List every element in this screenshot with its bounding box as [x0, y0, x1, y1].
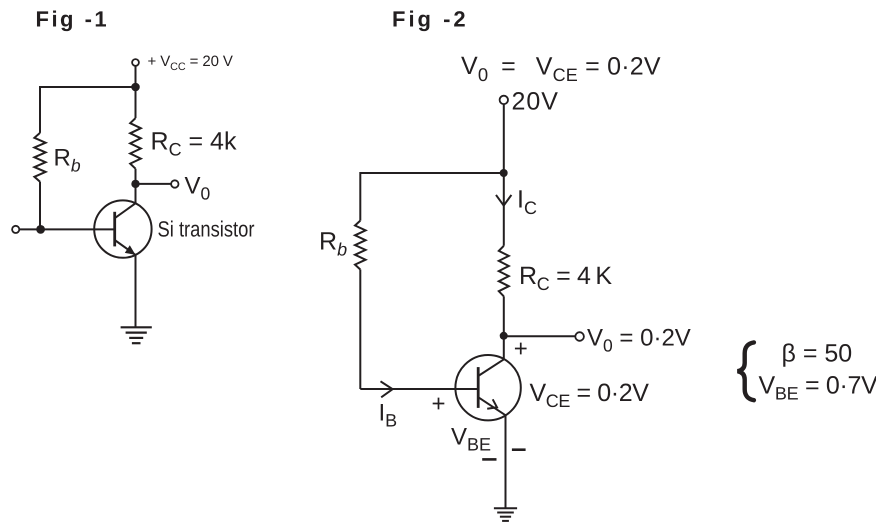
svg-text:IC: IC	[517, 185, 537, 218]
svg-text:20V: 20V	[512, 88, 559, 116]
wire collector node to Q2	[503, 336, 505, 360]
ground fig1	[121, 326, 152, 328]
svg-text:VCE = 0·2V: VCE = 0·2V	[530, 379, 650, 411]
svg-text:β = 50: β = 50	[782, 340, 853, 368]
junction dot collector node fig2	[500, 332, 508, 340]
svg-text:V0: V0	[185, 173, 211, 204]
wire top horizontal fig2	[360, 172, 503, 174]
brace right conditions	[738, 342, 754, 400]
svg-text:RC = 4 K: RC = 4 K	[519, 262, 612, 294]
resistor Rc fig1	[130, 118, 141, 169]
wire left vertical upper fig2	[359, 172, 361, 221]
ground fig2	[494, 507, 517, 509]
wire V0 stub fig2	[504, 335, 576, 337]
junction dot supply node fig2	[500, 169, 508, 177]
svg-text:Fig -2: Fig -2	[392, 7, 469, 32]
wire emitter to ground fig2	[505, 415, 507, 508]
arrow Ib	[381, 381, 393, 397]
junction dot Vcc node	[131, 83, 140, 92]
wire Rc bottom to collector	[135, 169, 137, 204]
transistor Q1 (Si NPN)	[94, 200, 151, 257]
junction dot collector node fig1	[131, 180, 139, 188]
svg-text:V0 = VCE = 0·2V: V0 = VCE = 0·2V	[461, 52, 661, 85]
svg-text:+ VCC = 20 V: + VCC = 20 V	[148, 53, 233, 73]
svg-text:RC = 4k: RC = 4k	[151, 128, 237, 160]
wire Rc to collector node fig2	[503, 296, 505, 336]
minus sign right of emitter wire	[512, 448, 526, 451]
svg-text:VBE = 0·7V: VBE = 0·7V	[759, 371, 876, 403]
wire left vertical lower	[39, 182, 41, 230]
svg-text:IB: IB	[379, 400, 398, 431]
wire left vertical upper	[39, 86, 41, 133]
svg-text:Rb: Rb	[54, 145, 81, 176]
svg-text:+: +	[431, 391, 445, 418]
svg-text:V0 = 0·2V: V0 = 0·2V	[587, 325, 691, 356]
svg-text:Fig -1: Fig -1	[36, 7, 110, 32]
wire Vcc to Rc top	[135, 66, 137, 118]
minus sign below Vbe	[482, 458, 496, 461]
svg-text:+: +	[514, 336, 528, 363]
resistor Rc fig2	[499, 246, 509, 296]
wire base input fig1	[19, 228, 114, 230]
arrow Ic	[496, 195, 511, 206]
terminal 20V	[500, 96, 508, 104]
terminal input fig1	[12, 226, 19, 233]
resistor Rb fig2	[355, 221, 366, 270]
wire V0 stub fig1	[136, 183, 172, 185]
terminal +Vcc	[132, 59, 139, 66]
junction dot base node fig1	[36, 225, 45, 234]
terminal V0 fig2	[575, 332, 584, 341]
wire base fig2	[360, 388, 478, 390]
wire supply vertical	[503, 104, 505, 246]
svg-text:Si transistor: Si transistor	[158, 217, 255, 242]
terminal V0 fig1	[171, 180, 178, 187]
svg-text:VBE: VBE	[451, 424, 491, 455]
svg-text:Rb: Rb	[319, 228, 347, 260]
wire top horizontal	[40, 86, 136, 88]
transistor Q2 (NPN)	[455, 355, 520, 420]
wire left vertical lower fig2	[359, 270, 361, 390]
resistor Rb	[34, 133, 45, 182]
wire emitter to ground fig1	[135, 255, 137, 327]
